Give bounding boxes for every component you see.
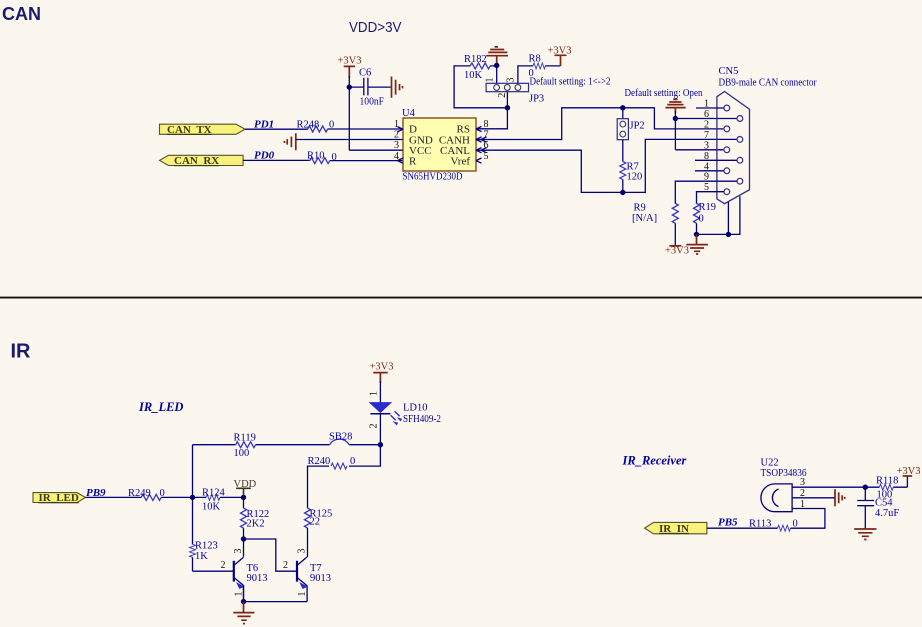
wire LED to SB28 node [379,414,381,445]
svg-text:R240: R240 [308,456,331,467]
wire ground to pin6 row [675,111,736,150]
svg-text:4.7uF: 4.7uF [875,508,899,519]
svg-text:0: 0 [699,214,704,225]
svg-text:C6: C6 [359,68,371,79]
wire +3V3 to C6 node and down to VCC [349,76,403,150]
connector CN5 DB9 shell [717,66,817,204]
pin 5 [476,151,489,163]
transistor T6 9013 [234,539,268,602]
node IR_LED junction [190,495,195,500]
svg-text:+3V3: +3V3 [338,56,362,67]
svg-text:3: 3 [800,477,805,488]
svg-text:Vref: Vref [451,156,471,168]
svg-text:3: 3 [297,549,308,554]
svg-text:+3V3: +3V3 [897,466,921,477]
resistor R19 [694,202,717,234]
svg-text:1K: 1K [195,551,208,562]
svg-text:R248: R248 [297,120,320,131]
power +3V3 (R8) [548,46,572,67]
svg-text:2: 2 [497,93,508,98]
svg-text:R182: R182 [464,54,487,65]
port CAN_RX [160,155,244,167]
power +3V3 (top left) [338,56,362,78]
port CAN_TX [160,124,246,136]
pin 1 (U22) [791,499,825,528]
svg-text:R9: R9 [634,203,646,214]
ground (right of C6, rotated) [392,77,403,98]
wire CAN_TX to pin1 [245,128,403,130]
node LED cathode [378,442,383,447]
ground (pin2 U22, rotated) [835,489,845,506]
node pin6 junction [673,116,678,121]
ground (GND pin2, rotated left) [284,133,295,150]
svg-text:DB9-male CAN connector: DB9-male CAN connector [719,78,817,89]
svg-text:CAN: CAN [2,4,41,24]
svg-text:3: 3 [506,78,517,83]
resistor R249 [128,488,165,501]
power +3V3 (below R9, inverted) [665,246,689,257]
svg-text:R118: R118 [876,475,898,486]
svg-text:0: 0 [329,120,334,131]
pin 6 (CN5) [704,109,743,121]
svg-text:IR: IR [11,340,32,362]
svg-text:JP3: JP3 [529,94,544,105]
pin 8 (CN5) [695,151,743,163]
node R7 bottom [620,190,625,195]
wire ground to pin2 [296,139,403,141]
svg-text:0: 0 [529,68,534,79]
svg-text:IR_LED: IR_LED [39,492,79,504]
pin 9 (CN5) [704,172,743,184]
svg-text:R19: R19 [699,202,717,213]
pin 8 [476,119,489,132]
svg-text:5: 5 [484,151,489,162]
svg-text:R119: R119 [234,433,256,444]
capacitor C6 [359,68,384,108]
svg-text:IR_IN: IR_IN [659,523,689,535]
resistor R10 [307,151,337,164]
wire pin5 to R19 [697,192,724,204]
svg-text:9013: 9013 [310,573,331,584]
capacitor C54 [857,487,899,529]
svg-text:120: 120 [627,172,643,183]
resistor R123 [190,497,218,571]
port IR_LED [33,492,86,504]
pin 2 (CN5) [704,119,730,131]
svg-text:3: 3 [704,140,709,151]
ferrite bead SB28 [329,431,352,444]
svg-text:JP2: JP2 [630,121,645,132]
svg-text:100: 100 [234,448,250,459]
section divider [0,297,922,299]
svg-text:0: 0 [350,456,355,467]
svg-text:2: 2 [394,130,399,141]
node +3V3/C6 junction [347,84,352,89]
svg-text:LD10: LD10 [403,403,428,414]
svg-text:0: 0 [332,152,337,163]
op-amp U4 chip body SN65HVD230D [402,108,476,182]
resistor R9 [632,203,678,246]
resistor R240 [308,456,356,469]
ground (below C54) [854,529,876,540]
wire IR_LED to base net [86,496,244,498]
wire collector T6 to base T7 [244,539,297,571]
svg-text:PB5: PB5 [718,517,738,529]
node VDD junction [241,495,246,500]
svg-text:6: 6 [704,109,709,120]
LED emission arrows [391,411,400,420]
node pin3 / C54 [863,485,868,490]
svg-text:SN65HVD230D: SN65HVD230D [403,171,463,182]
pin 1 [394,119,403,132]
resistor R124 [202,487,226,512]
node R19 bottom [694,232,699,237]
svg-text:10K: 10K [202,502,221,513]
resistor R8 [529,54,546,79]
resistor R122 [241,497,270,539]
port IR_IN [645,522,707,535]
ground (below R19) [686,234,708,254]
wire R182 left to RS/JP3 net [454,66,507,129]
svg-text:2K2: 2K2 [247,518,265,529]
svg-text:R10: R10 [307,151,325,162]
ground (below T6/T7) [233,602,254,624]
pin 7 [476,130,489,143]
jumper JP2 [617,108,644,140]
svg-text:9013: 9013 [247,573,268,584]
svg-text:U4: U4 [402,108,416,119]
wire R240 branch [308,445,381,509]
resistor R118 [865,475,907,500]
wire CANH net [476,108,723,140]
svg-text:+3V3: +3V3 [370,362,394,373]
svg-text:SB28: SB28 [329,431,352,442]
wire IR_IN to pin1 [707,527,778,529]
node RS junction [505,105,510,110]
ground (DB9 pin6, inverted) [665,99,685,113]
node emitter junction [241,599,246,604]
svg-text:CAN_RX: CAN_RX [174,155,219,167]
node JP2 top [620,105,625,110]
wire CANL net [476,139,736,192]
svg-text:R113: R113 [749,519,771,530]
svg-text:CAN_TX: CAN_TX [167,124,212,136]
svg-text:22: 22 [310,517,321,528]
svg-text:R: R [409,156,417,168]
power +3V3 (R118) [897,466,921,487]
pin 4 [394,151,403,163]
svg-text:1: 1 [394,119,399,130]
svg-text:R249: R249 [128,488,151,499]
pin 2 (U22) [792,488,834,499]
pin 4 (CN5) [695,161,730,173]
svg-text:1: 1 [297,592,308,597]
pin 5 (CN5) [704,182,730,194]
resistor R113 [749,519,798,532]
svg-text:3: 3 [394,140,399,151]
resistor R119 [234,433,256,460]
svg-text:Default setting: 1<->2: Default setting: 1<->2 [530,76,611,87]
svg-text:CN5: CN5 [719,66,739,77]
node shell ground [726,232,731,237]
power VDD [234,479,257,498]
resistor R7 [620,140,642,193]
svg-text:SFH409-2: SFH409-2 [403,414,441,425]
wire C6 to ground [368,86,391,88]
svg-text:2: 2 [283,560,288,571]
resistor R182 [464,54,490,81]
svg-text:IR_LED: IR_LED [138,400,183,414]
pin 6 [476,140,489,153]
resistor R125 [305,508,333,557]
svg-text:7: 7 [704,130,709,141]
node T6 collector / R122 [241,536,246,541]
transistor T7 9013 [297,557,331,602]
wire emitters to ground [244,585,308,601]
wire JP3 pin3 to R8 [518,66,561,83]
wire pin9 to R9 [675,181,736,204]
pin 7 (CN5) [704,130,743,142]
svg-text:100nF: 100nF [360,97,385,108]
wire base T6 [193,570,234,572]
svg-text:+3V3: +3V3 [665,246,689,257]
svg-text:R8: R8 [529,54,541,65]
svg-text:10K: 10K [464,70,483,81]
wire R119 rail [193,445,381,498]
pin 1 (CN5) [696,99,730,111]
ground (above JP3, inverted) [486,47,508,65]
svg-text:0: 0 [160,488,165,499]
pin 3 (U22) [792,477,865,488]
wire CAN_RX to pin4 [243,159,403,161]
svg-text:2: 2 [221,560,226,571]
svg-text:0: 0 [793,519,798,530]
svg-text:[N/A]: [N/A] [632,213,657,224]
svg-text:IR_Receiver: IR_Receiver [622,454,687,468]
svg-text:2: 2 [704,119,709,130]
svg-text:R124: R124 [202,487,226,498]
wire R19 bottom to shell ground [697,196,740,234]
IC U22 TSOP34836 [761,458,807,512]
svg-text:Default setting: Open: Default setting: Open [625,88,704,99]
svg-text:2: 2 [369,424,380,429]
pin 3 (CN5) [704,140,730,152]
svg-text:1: 1 [369,391,380,396]
node JP3 pin1 junction [494,63,499,68]
svg-text:3: 3 [233,549,244,554]
jumper JP3 [486,83,544,104]
wire +3V3 to LED [379,381,381,403]
svg-text:VDD>3V: VDD>3V [349,19,402,36]
wire R182 right to JP3 pin1 [490,66,497,83]
resistor R248 [297,120,335,133]
power +3V3 (LED) [370,362,394,384]
svg-text:1: 1 [485,78,496,83]
LED LD10 [370,403,441,425]
